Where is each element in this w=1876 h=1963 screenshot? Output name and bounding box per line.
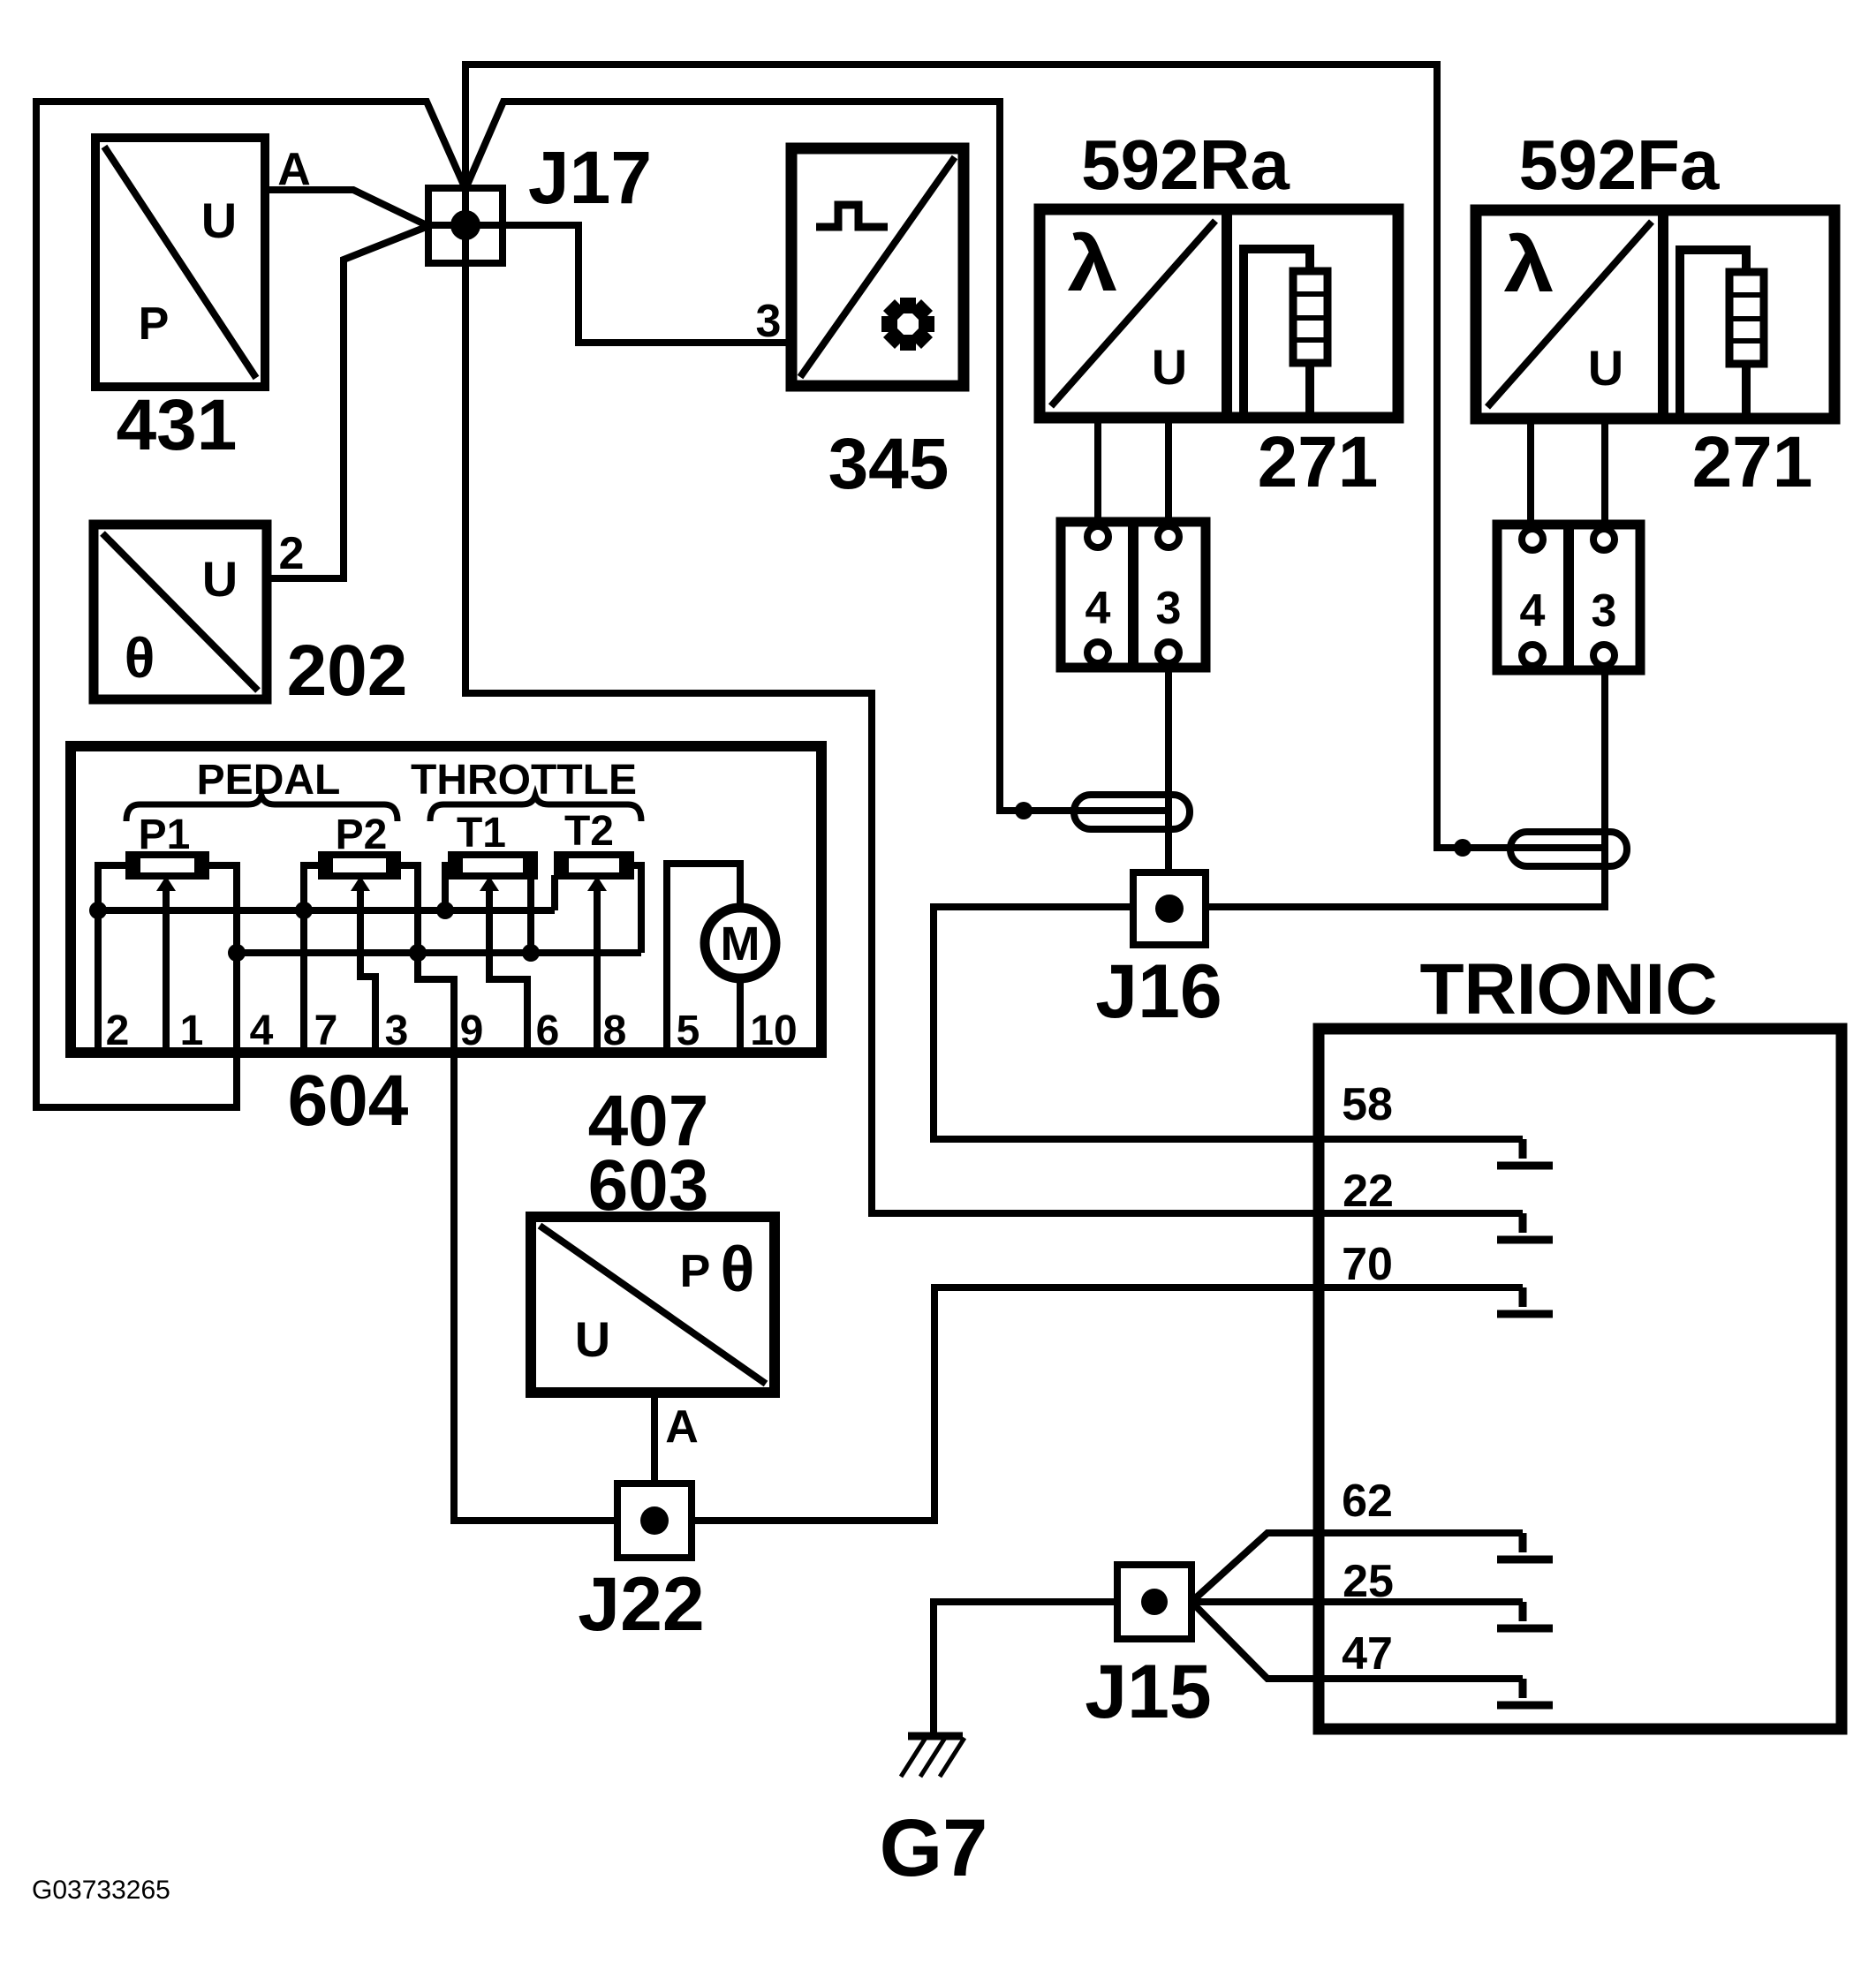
svg-text:θ: θ (125, 626, 155, 690)
wire: P2 left lead to pin 7 (304, 865, 321, 1053)
svg-text:U: U (202, 551, 238, 607)
terminal tick pin 58 (1497, 1139, 1553, 1166)
svg-text:58: 58 (1342, 1079, 1393, 1130)
svg-text:1: 1 (180, 1008, 204, 1054)
svg-text:62: 62 (1342, 1476, 1393, 1527)
svg-text:T2: T2 (564, 808, 614, 855)
wire: 592Fa sensor leads to connector (1531, 413, 1605, 525)
svg-text:M: M (721, 917, 760, 970)
svg-text:5: 5 (677, 1008, 700, 1054)
wire: P2 wiper to pin 3 (360, 888, 375, 1053)
svg-text:θ: θ (721, 1234, 755, 1305)
592Ra heater loop (1244, 249, 1310, 412)
P2 wiper arrow (351, 876, 370, 891)
wire: J17 vertical down, right at y785, down to TRIONIC pin 22 (465, 61, 1523, 1213)
svg-text:431: 431 (117, 385, 238, 465)
splice oval 592Fa (1510, 832, 1627, 866)
604 pin labels (106, 1008, 798, 1054)
wire: J17 to 592Ra splice (465, 102, 1172, 811)
connector block 592Ra (1061, 522, 1206, 668)
ground G7 symbol (908, 1733, 963, 1740)
592Ra divider (1222, 209, 1232, 418)
valve 345 gear icon (881, 298, 934, 351)
svg-text:P1: P1 (139, 812, 191, 858)
wire: J17 to 345 pin 3 (428, 225, 791, 343)
svg-text:P2: P2 (336, 812, 388, 858)
svg-text:U: U (1152, 339, 1187, 395)
svg-text:3: 3 (385, 1008, 409, 1054)
junction dot H2 pin9 (409, 944, 427, 962)
592Fa diagonal (1487, 222, 1652, 407)
connector J16 box (1133, 872, 1206, 945)
wire: J15 to TRIONIC pin 62 (1191, 1533, 1523, 1602)
svg-text:2: 2 (279, 528, 305, 579)
junction dot H2 pin4 (228, 944, 246, 962)
svg-text:10: 10 (750, 1008, 797, 1054)
connector J17 box (428, 188, 503, 263)
svg-text:592Fa: 592Fa (1519, 125, 1720, 204)
splice oval 592Ra (1074, 795, 1190, 829)
wire: supply loop from 604 pin 4 up left border to J17 (36, 102, 465, 1107)
592Ra diagonal (1051, 221, 1215, 406)
svg-text:P: P (139, 298, 170, 350)
svg-text:G03733265: G03733265 (32, 1876, 170, 1905)
svg-text:λ: λ (1504, 221, 1555, 308)
svg-text:U: U (1588, 340, 1623, 396)
connector J16 dot (1155, 895, 1184, 923)
wire: 604 pin 9 down to J22 (454, 1047, 617, 1521)
wire: T2 right lead (631, 865, 641, 953)
svg-text:8: 8 (603, 1008, 627, 1054)
svg-text:604: 604 (288, 1061, 409, 1141)
connector J22 dot (640, 1506, 669, 1535)
svg-text:J15: J15 (1085, 1650, 1212, 1734)
wire: bus H1 (95, 907, 555, 914)
terminal tick pin 22 (1497, 1213, 1553, 1240)
potentiometer P2 (321, 855, 397, 876)
motor M circle (705, 908, 775, 978)
wire: motor to pin 10 (737, 978, 744, 1053)
wire: T1 right lead to bus (527, 875, 534, 953)
connector J17 dot (450, 210, 480, 240)
valve 345 diagonal (800, 157, 955, 377)
wire: motor feed pin 5 (667, 864, 740, 1053)
wire: bus H2 (237, 949, 641, 956)
svg-text:3: 3 (756, 296, 782, 347)
svg-text:J17: J17 (528, 136, 652, 219)
svg-text:271: 271 (1258, 422, 1379, 502)
wire: 202 pin 2 to J17 (267, 226, 428, 578)
wire: T1 wiper to pin 6 (489, 888, 527, 1053)
T2 wiper arrow (587, 876, 607, 891)
junction dot H1 T1 (436, 902, 454, 919)
connector J15 dot (1141, 1589, 1168, 1615)
592Fa heater loop (1680, 250, 1746, 413)
svg-text:47: 47 (1342, 1628, 1393, 1680)
pedal box 604 (71, 746, 821, 1053)
terminal tick pin 70 (1497, 1287, 1553, 1314)
terminal tick pin 62 (1497, 1533, 1553, 1559)
sensor 431 box (95, 138, 265, 387)
brace PEDAL (126, 796, 397, 821)
sensor 603 box (531, 1217, 775, 1393)
svg-text:J16: J16 (1095, 949, 1222, 1034)
potentiometer P1 (129, 855, 206, 876)
svg-text:P: P (680, 1246, 711, 1297)
592Ra heater resistor (1293, 271, 1328, 363)
wire: T2 wiper to pin 8 (594, 888, 601, 1053)
wire: J22 right to TRIONIC pin 70 (692, 1287, 1523, 1521)
potentiometer T2 (557, 855, 631, 876)
svg-text:70: 70 (1342, 1239, 1393, 1290)
wire: J15 left to ground G7 (934, 1602, 1117, 1733)
oxygen sensor 592Ra box (1040, 209, 1398, 418)
svg-text:G7: G7 (880, 1803, 988, 1893)
potentiometer T1 (451, 855, 534, 876)
splice dot 592Fa (1454, 839, 1471, 857)
wire: T2 left lead (551, 875, 558, 910)
svg-text:4: 4 (1520, 585, 1546, 637)
svg-text:202: 202 (287, 630, 408, 711)
sensor 202 diagonal (102, 533, 258, 691)
valve 345 box (791, 148, 964, 386)
junction dot H1 pin2 (89, 902, 107, 919)
T1 wiper arrow (480, 876, 499, 891)
connector J22 box (617, 1484, 692, 1558)
junction dot H1 pin7 (295, 902, 313, 919)
svg-text:A: A (277, 144, 311, 195)
svg-text:345: 345 (828, 424, 949, 504)
svg-text:592Ra: 592Ra (1081, 125, 1290, 204)
svg-text:22: 22 (1343, 1166, 1394, 1217)
svg-text:λ: λ (1068, 220, 1118, 307)
wire: 592Ra sensor leads to connector (1098, 412, 1169, 522)
connector block 592Fa (1497, 525, 1640, 670)
sensor 431 diagonal (104, 147, 256, 378)
svg-text:PEDAL: PEDAL (197, 757, 341, 804)
svg-text:6: 6 (536, 1008, 560, 1054)
svg-text:T1: T1 (457, 810, 506, 857)
wire: J15 to TRIONIC pin 25 (1191, 1598, 1523, 1605)
svg-text:271: 271 (1692, 422, 1813, 502)
svg-text:U: U (201, 193, 237, 248)
terminal tick pin 47 (1497, 1679, 1553, 1705)
brace THROTTLE (430, 796, 641, 821)
svg-text:TRIONIC: TRIONIC (1419, 949, 1717, 1030)
TRIONIC box (1319, 1029, 1842, 1729)
wire: J15 to TRIONIC pin 47 (1191, 1602, 1523, 1679)
svg-text:2: 2 (106, 1008, 130, 1054)
wire: 431 pin A to J17 (265, 190, 428, 226)
svg-text:25: 25 (1343, 1556, 1394, 1607)
svg-text:THROTTLE: THROTTLE (411, 757, 637, 804)
terminal tick pin 25 (1497, 1602, 1553, 1628)
svg-text:4: 4 (1086, 583, 1111, 634)
P1 wiper arrow (156, 876, 176, 891)
junction dot H2 T1 (522, 944, 540, 962)
svg-text:9: 9 (460, 1008, 484, 1054)
connector J15 box (1117, 1565, 1191, 1639)
wire: P2 right lead to pin 9 (394, 865, 454, 1053)
wire: P1 left lead to pin 2 (98, 865, 129, 1053)
splice dot 592Ra (1015, 802, 1033, 819)
592Fa heater resistor (1729, 272, 1764, 364)
sensor 603 diagonal (540, 1226, 766, 1384)
svg-text:U: U (575, 1311, 610, 1367)
oxygen sensor 592Fa box (1476, 210, 1834, 419)
592Fa divider (1658, 210, 1668, 419)
wire: 603 pin A down to J22 (651, 1393, 658, 1484)
wire: J17 top to 592Fa splice (465, 64, 1608, 848)
wire: J16 left to TRIONIC pin 58 (934, 907, 1523, 1139)
wire: 592Fa connector pin 3 down to J16 right branch (1206, 670, 1605, 907)
wire: 592Ra connector pin 3 down to J16 (1165, 668, 1172, 872)
wire: T1 left lead to bus (445, 865, 451, 910)
svg-text:J22: J22 (578, 1562, 705, 1647)
svg-text:A: A (665, 1401, 699, 1453)
sensor 202 box (94, 525, 267, 699)
valve 345 pulse icon (816, 205, 888, 227)
svg-text:4: 4 (250, 1008, 274, 1054)
svg-text:3: 3 (1592, 585, 1617, 637)
svg-text:3: 3 (1156, 583, 1182, 634)
wire: P1 wiper to pin 1 (163, 888, 170, 1053)
svg-text:7: 7 (314, 1008, 338, 1054)
